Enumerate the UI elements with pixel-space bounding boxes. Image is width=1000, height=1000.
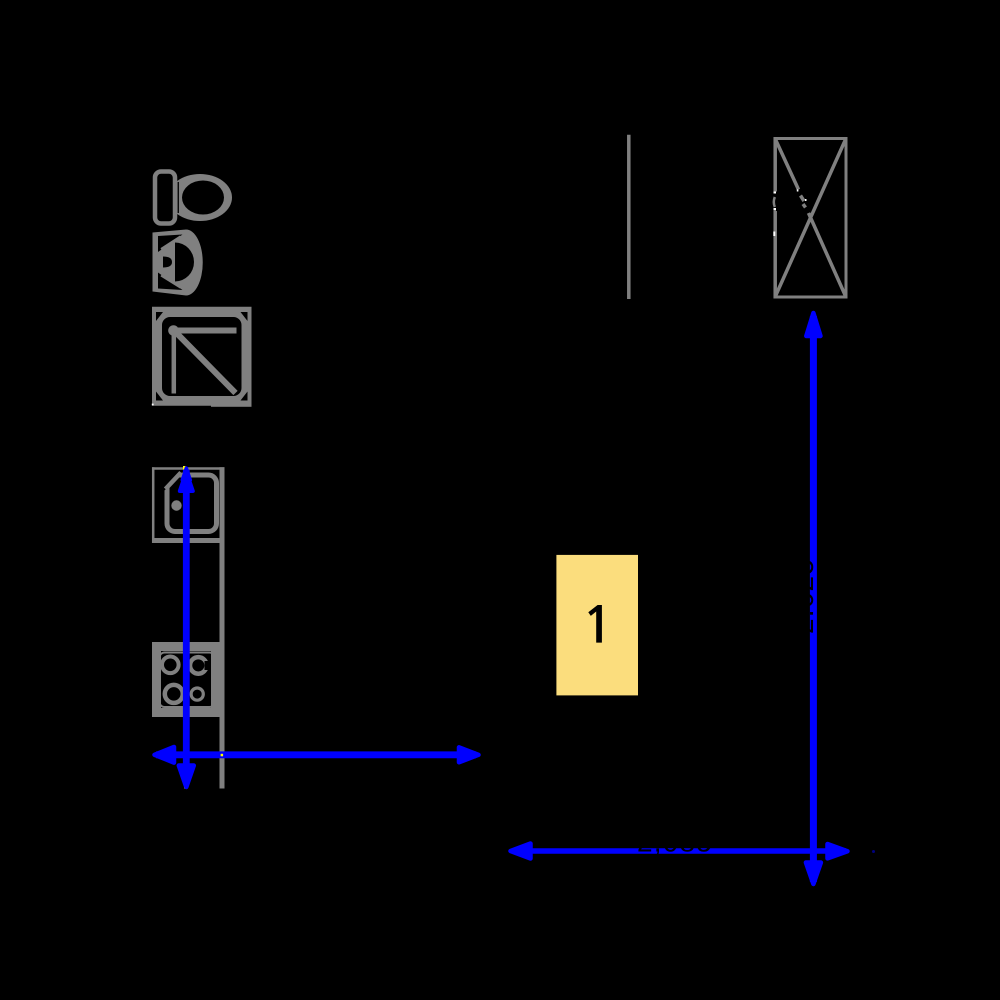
shaft box left edge lower bbox=[773, 211, 777, 299]
washbasin silhouette bbox=[153, 230, 203, 296]
washbasin chamfer top bbox=[161, 236, 181, 249]
dim line B left arrowhead bbox=[155, 747, 175, 763]
shaft diagonal TL-BR upper bbox=[776, 140, 799, 190]
toilet bowl bbox=[168, 174, 232, 221]
burner top-right gap bbox=[205, 661, 211, 670]
shaft diagonal BL-TR bbox=[776, 140, 846, 297]
kitchen sink corner cut black bbox=[163, 470, 184, 492]
washbasin top-left hole bbox=[158, 235, 183, 253]
white specks bbox=[773, 189, 806, 236]
kitchen counter sink divider bbox=[152, 538, 225, 543]
dim line D horizontal (bottom) bbox=[512, 848, 846, 854]
room 1 fill bbox=[556, 555, 638, 696]
kitchen counter top edge bbox=[152, 467, 225, 470]
svg-text:2,085: 2,085 bbox=[637, 827, 713, 858]
kitchen sink drain bbox=[171, 500, 181, 510]
dim line A top arrowhead small bbox=[182, 468, 190, 480]
shaft box left edge upper bbox=[773, 137, 777, 192]
toilet tank-bowl separation bbox=[178, 182, 179, 213]
room 1 label bbox=[588, 605, 602, 643]
wall segment bbox=[627, 135, 631, 299]
shaft diagonal TL-BR lower bbox=[809, 213, 846, 296]
dim line C vertical (right) bbox=[810, 316, 817, 882]
shower bottom band step bbox=[211, 405, 252, 407]
shaft box right edge bbox=[845, 137, 848, 299]
kitchen sink chamfer line bbox=[166, 473, 182, 490]
shaft box top edge bbox=[774, 137, 848, 140]
washbasin bowl fan hole bbox=[175, 243, 194, 282]
shower rail vertical bbox=[172, 332, 177, 394]
burner bottom-left bbox=[165, 685, 183, 703]
shower diagonal bbox=[176, 333, 236, 394]
shaft box left edge dash bbox=[774, 197, 775, 207]
yellow dashed centerline specks kitchen bbox=[183, 466, 187, 789]
dark blue remnant dot bbox=[872, 850, 875, 853]
dim line B right arrowhead bbox=[459, 747, 479, 762]
stove box bbox=[157, 647, 216, 713]
shaft diagonal blob 2 bbox=[803, 204, 806, 208]
shower tray band bbox=[152, 307, 252, 406]
shower corner notch BR bbox=[241, 392, 248, 401]
dim line A top arrowhead bbox=[180, 472, 193, 491]
yellow speck at crossing bbox=[221, 754, 224, 757]
washbasin bottom-left hole bbox=[158, 273, 183, 291]
burner top-right bbox=[190, 657, 207, 674]
burner bottom-right bbox=[191, 688, 203, 700]
toilet bowl hole bbox=[182, 181, 224, 215]
dim line C top arrowhead bbox=[806, 313, 820, 336]
shaft diagonal blob 1 bbox=[801, 196, 805, 202]
dim line D left arrowhead bbox=[511, 844, 531, 859]
burner top-left bbox=[162, 657, 179, 674]
dim line D right arrowhead bbox=[828, 844, 848, 858]
kitchen counter right edge bbox=[220, 467, 225, 788]
shower rail horizontal bbox=[173, 328, 237, 334]
shower drain dot bbox=[168, 325, 179, 336]
shower corner notch TL bbox=[156, 312, 163, 321]
shaft box bottom edge bbox=[774, 296, 848, 299]
dim line A vertical (kitchen) bbox=[183, 470, 190, 768]
kitchen sink bowl bbox=[167, 475, 217, 532]
dim line C bottom arrowhead bbox=[806, 863, 821, 885]
toilet tank bbox=[155, 172, 175, 224]
stove inner rect bbox=[160, 653, 215, 708]
dim line A bottom arrowhead bbox=[179, 766, 194, 788]
shower corner white speck bbox=[152, 404, 154, 406]
shower corner notch BL bbox=[156, 392, 163, 401]
kitchen counter left edge sink cell bbox=[152, 467, 155, 543]
washbasin tap hole bbox=[163, 257, 172, 268]
dim line B horizontal (kitchen) bbox=[156, 751, 476, 758]
svg-text:2.625: 2.625 bbox=[788, 558, 819, 634]
washbasin chamfer bottom bbox=[161, 276, 181, 288]
shower corner notch TR bbox=[241, 312, 248, 321]
